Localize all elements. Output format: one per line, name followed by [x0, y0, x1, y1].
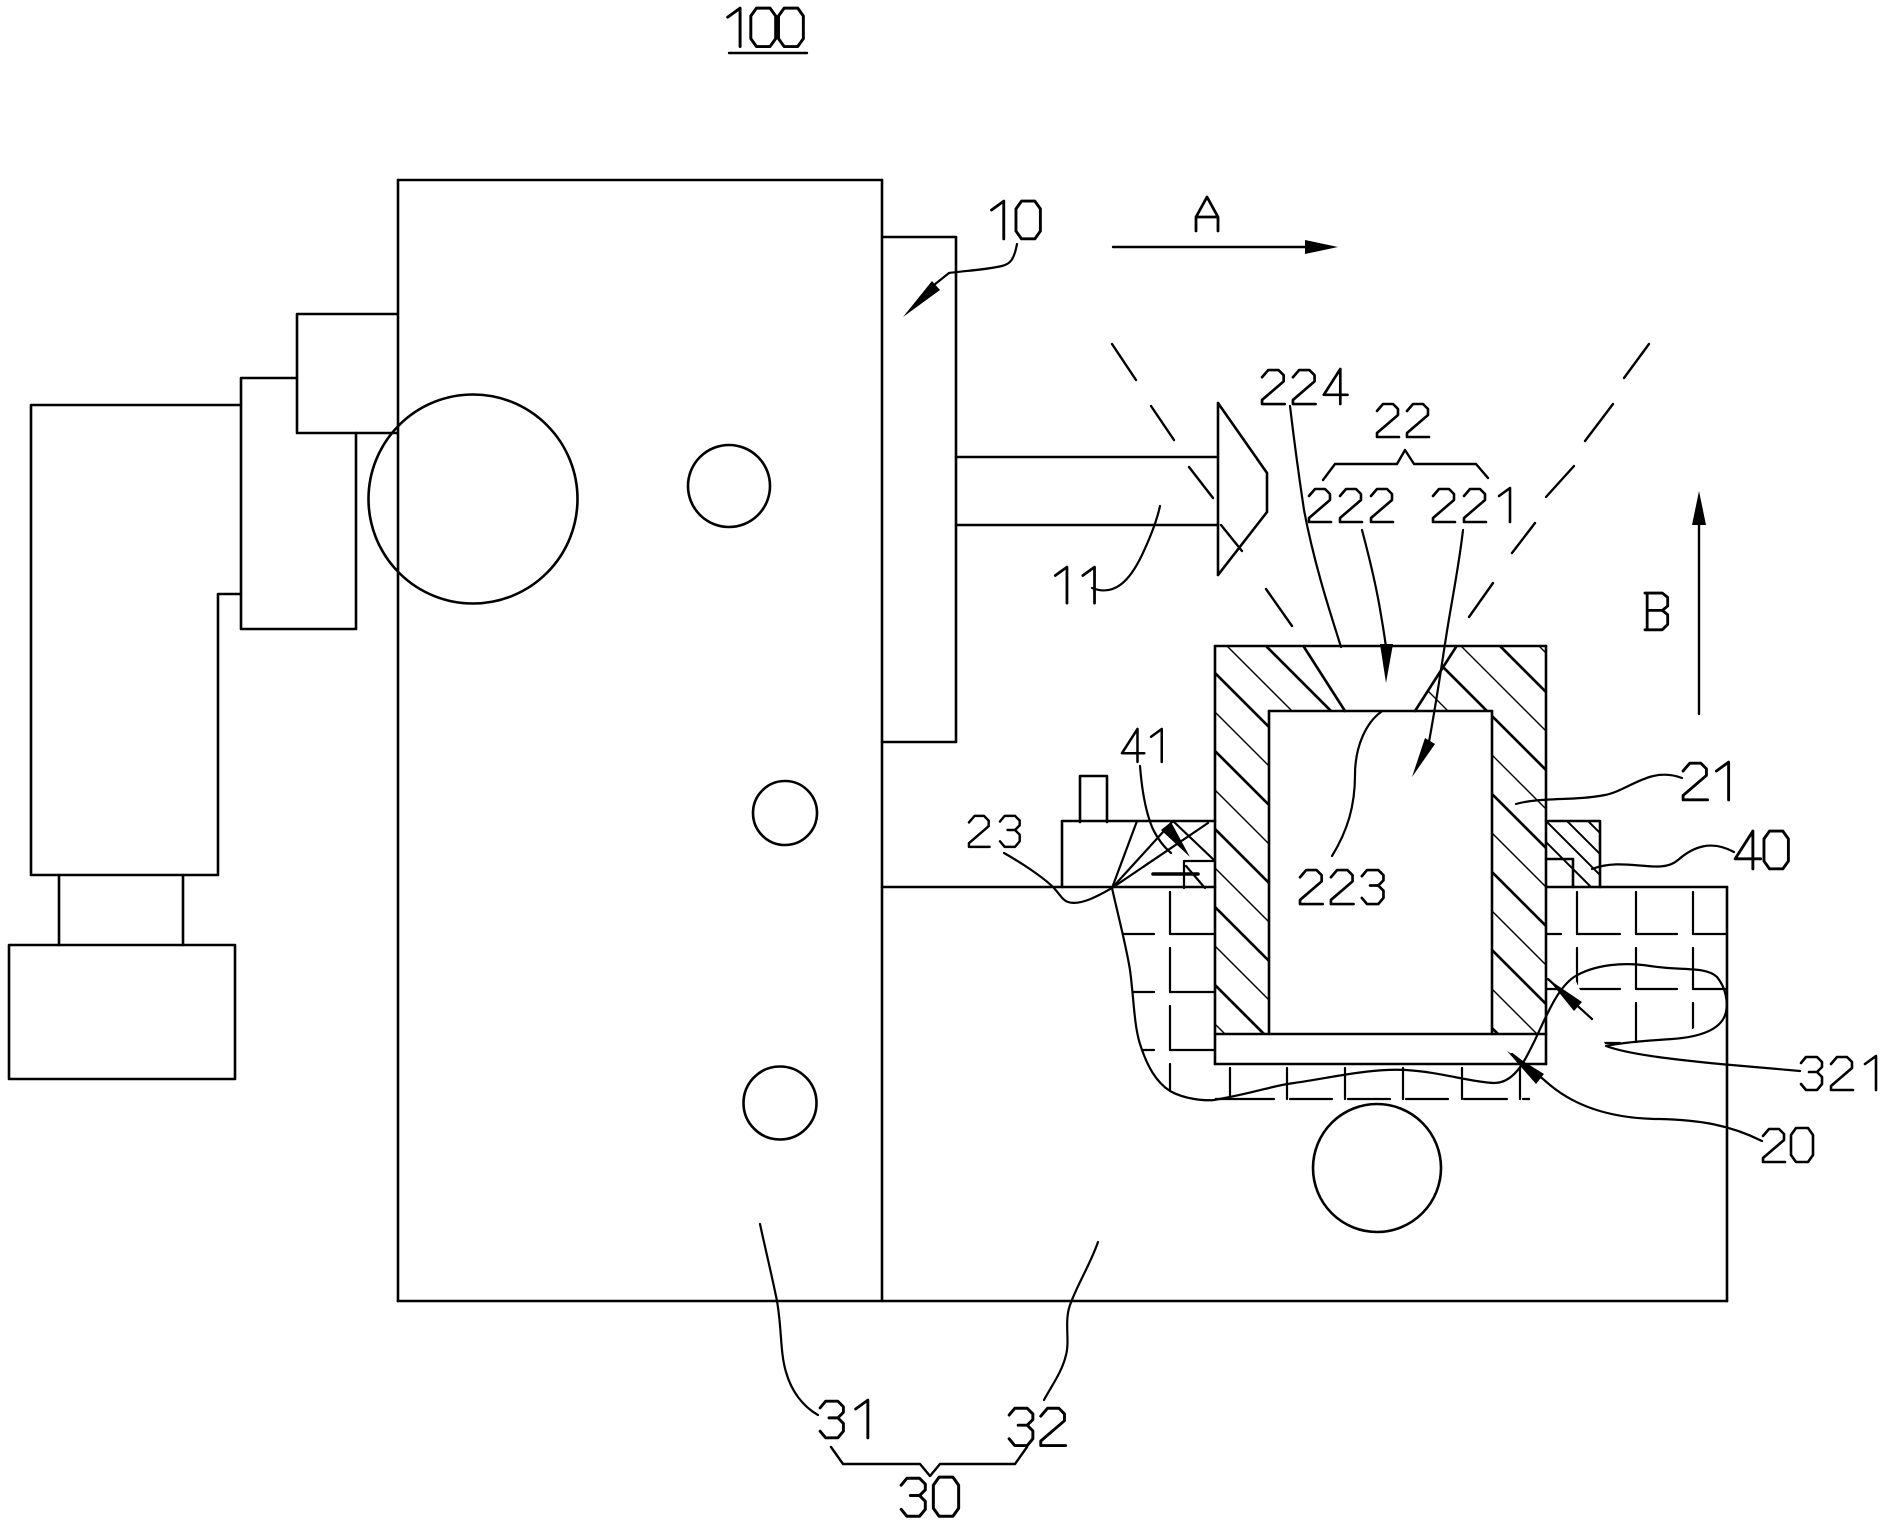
clamp block 23 [1062, 821, 1215, 887]
label B [1645, 593, 1668, 630]
crucible vessel 21 hatch [1200, 307, 1620, 1429]
refractory brick lining right block 32 [1546, 892, 1727, 1043]
label 30 [901, 1477, 959, 1516]
label 20 [1763, 1128, 1813, 1162]
arrowhead of 222 [1380, 644, 1393, 683]
label 22 [1377, 404, 1429, 437]
label 32 [1009, 1408, 1066, 1445]
arm big link plate [31, 405, 241, 875]
refractory brick lining under vessel [1215, 1068, 1546, 1099]
leader of 21 [1516, 775, 1682, 804]
circle on body 20 [1313, 1104, 1441, 1232]
label 222 [1309, 489, 1393, 522]
pour funnel 222 slants [1304, 647, 1456, 711]
small circle middle [753, 781, 817, 845]
big circle on column [369, 395, 578, 604]
body 20 right edge [1726, 887, 1729, 1301]
label 40 [1735, 831, 1788, 869]
base bottom edge [398, 1300, 1727, 1303]
spray horn nozzle [1218, 403, 1267, 575]
mold cavity 223 outline [1269, 711, 1492, 1034]
arrowhead of 221 [1412, 738, 1435, 777]
label 11 [1055, 567, 1094, 603]
arrowhead of 41 [1161, 822, 1190, 857]
label 224 [1262, 369, 1347, 404]
label 100 [728, 8, 804, 46]
arm square bracket [297, 314, 397, 433]
leader of 20 [1512, 1054, 1762, 1141]
arm foot block [9, 945, 235, 1079]
label 321 [1801, 1056, 1876, 1090]
crucible vessel 21 outline [1215, 646, 1546, 1064]
arm lower neck [59, 875, 183, 945]
actuator block on column right side [882, 237, 956, 742]
body 20 top surface left segment [882, 886, 1215, 889]
seal block 40 [1546, 821, 1600, 887]
dashed spray ray right [1469, 344, 1649, 617]
bolt on clamp 23 [1080, 776, 1107, 822]
freehand boundary of lining / leader 321 [1112, 888, 1800, 1100]
piston rod 11 [956, 457, 1218, 525]
leader of 31 [760, 1224, 818, 1415]
label 21 [1683, 762, 1729, 800]
label A [1196, 197, 1218, 231]
leader of 10 [949, 244, 1017, 273]
direction arrow B [1692, 491, 1706, 714]
dashed spray ray left [1112, 344, 1292, 626]
body 20 top surface right segment [1546, 886, 1727, 889]
wedge 41 notch [1153, 861, 1215, 888]
label 10 [992, 201, 1041, 239]
small circle upper [688, 445, 770, 527]
leader of 221 [1428, 530, 1463, 747]
leader of 222 [1362, 530, 1386, 647]
label 31 [820, 1400, 868, 1438]
arrowhead of 10 [903, 281, 940, 317]
machine column 10 outline [398, 180, 882, 1301]
leader of 32 [1044, 1242, 1098, 1400]
underline of 100 [729, 52, 807, 54]
leader of 23 [1004, 853, 1112, 903]
seal block 40 hatch [1520, 711, 1620, 916]
label 223 [1300, 870, 1383, 904]
label 41 [1122, 729, 1162, 762]
label 23 [969, 816, 1020, 847]
refractory brick lining left block [1112, 892, 1215, 1101]
leader of 41 [1140, 766, 1171, 853]
brace under 22 [1323, 450, 1488, 480]
small circle lower [744, 1067, 817, 1140]
arrowhead of 20 [1507, 1051, 1544, 1084]
arm vertical plate [241, 378, 356, 629]
label 221 [1433, 488, 1510, 522]
direction arrow A [1113, 240, 1338, 254]
brace above 30 [831, 1447, 1027, 1476]
bottom plate 224 of mold [1215, 1034, 1546, 1064]
leader of 223 [1332, 712, 1381, 856]
leader of 11 [1092, 506, 1160, 590]
leader of 224 [1290, 406, 1341, 647]
leader of 40 [1592, 846, 1734, 869]
wedge 41 fan lines [1112, 821, 1215, 888]
arrowhead at lining corner for 321 [1548, 979, 1582, 1011]
